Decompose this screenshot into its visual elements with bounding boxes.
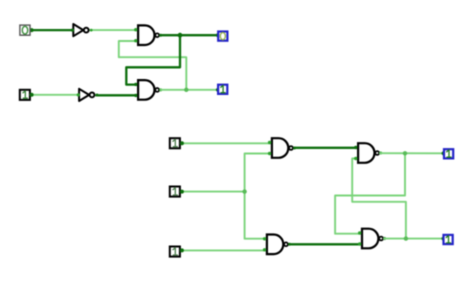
NAND gate U1a [134,25,162,45]
wire: U1b output to output pin B (logic 1) [161,89,218,91]
wire: branch from input D to U2a input 2 and U2b input 1 (logic 1) [245,154,271,239]
node: junction of input D wire and branch wire [242,189,246,193]
wire: inverter U3 output to U1a input 1 (logic 1) [91,29,138,31]
wire: input pin B to inverter U4 (logic 1) [31,94,79,96]
wire: input pin C to U2a input 1 (logic 1) [181,142,271,144]
input pin B value "1" [20,90,30,100]
wire: U1a output to output pin A (logic 0) [161,34,218,36]
node: junction on U1b output wire [184,88,188,92]
inverter U4 [77,89,99,101]
NAND gate U2a [268,138,296,158]
input pin E value "1" [170,247,180,257]
wire: feedback U1b output to U1a input 2 (logic 1) [119,41,187,90]
wire: U2a output to U2c input 1 (logic 0) [295,147,358,149]
output pin B value "1" [218,85,227,94]
output pin D value "1" [444,235,453,244]
wire: U2c output to output pin C (logic 1) [380,152,443,154]
wire: feedback U1a output to U1b input 1 (logic 0) [126,35,180,84]
node: connection dot at output pin B [216,88,220,92]
output pin C value "1" [444,149,453,158]
node: junction on U2c output wire [403,151,407,155]
NAND gate U1b [134,80,162,100]
wire: inverter U4 output to U1b input 2 (logic 0) [96,94,137,96]
NAND gate U2c [354,143,382,163]
node: junction on U2d output wire [404,236,408,240]
node: connection dot at input pin C [180,141,184,145]
NAND gate U2b [263,235,291,255]
node: connection dot at input pin A [30,28,34,32]
wire: U2d output to output pin D (logic 1) [384,238,443,240]
wire: input pin D to junction (logic 1) [181,191,245,193]
node: connection dot at input pin D [180,190,184,194]
wire: input pin E to U2b input 2 (logic 1) [181,249,267,251]
wire: feedback U2c output to U2d input 1 (logic 1) [335,153,405,233]
node: connection dot at output pin C [442,151,446,155]
node: connection dot at input pin B [30,93,34,97]
node: junction on U1a output wire [178,33,183,38]
node: connection dot at output pin D [442,237,446,241]
wire: input pin A to inverter U3 (logic 0) [31,29,73,31]
node: connection dot at input pin E [180,248,184,252]
NAND gate U2d [358,229,386,249]
input pin C value "1" [170,138,180,148]
node: connection dot at output pin A [216,33,220,37]
input pin A value "0" [20,25,30,35]
input pin D value "1" [170,187,180,197]
wire: U2b output to U2d input 2 (logic 0) [291,243,362,245]
output pin A value "0" [218,32,227,41]
wire: feedback U2d output to U2c input 2 (logic 1) [352,159,406,239]
inverter U3 [71,24,93,36]
